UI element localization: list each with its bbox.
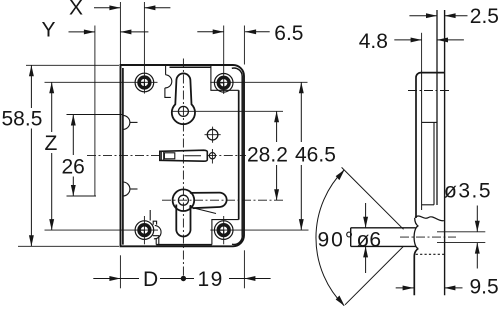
- dimension 46.5 line: [300, 82, 302, 230]
- case right edge: [238, 90, 240, 219]
- screw boss top-right outer: [214, 74, 233, 93]
- dimension 6.5 line: [197, 31, 269, 33]
- ø3.5 hole line top: [437, 231, 485, 233]
- pin cylinder: [351, 228, 416, 247]
- screw boss top-left tick: [141, 83, 145, 87]
- svg-text:ø3.5: ø3.5: [444, 179, 492, 202]
- svg-text:26: 26: [62, 156, 85, 179]
- svg-text:Z: Z: [45, 132, 58, 155]
- bolt inner dash: [184, 155, 201, 157]
- lever stem: [176, 205, 190, 237]
- dimension ø3.5 arrows: [476, 206, 478, 269]
- dimension Y line: [69, 31, 149, 33]
- dimension 2.5 line: [409, 15, 467, 17]
- extension line 4.8 front: [421, 33, 423, 70]
- extension line D left: [119, 255, 121, 288]
- hole circle lower: [209, 153, 215, 159]
- arrow arc top: [336, 170, 345, 181]
- arrow 2.5 left: [426, 13, 437, 18]
- side view slot bottom line: [422, 204, 434, 206]
- cover cutout top-left step: [165, 66, 167, 75]
- screw boss top-right ring: [218, 77, 229, 88]
- dimension 4.8 line: [394, 39, 464, 41]
- extension line 19 right: [243, 250, 245, 288]
- crosshair boss BR vertical: [223, 216, 225, 244]
- arrow Z bottom: [49, 219, 54, 230]
- extension line plate right top: [243, 26, 245, 65]
- side view plate back line: [444, 10, 446, 295]
- bolt outline: [160, 150, 208, 161]
- lever diagonal cutout edge: [189, 207, 216, 214]
- svg-text:4.8: 4.8: [359, 30, 388, 53]
- arrow arc bottom: [336, 296, 345, 307]
- side view plate front line: [436, 10, 438, 205]
- plate inner lip right: [232, 68, 242, 244]
- node dot center: [181, 276, 186, 281]
- svg-text:ø6: ø6: [357, 229, 382, 252]
- lever arm: [190, 193, 227, 209]
- hole circle upper: [207, 129, 218, 140]
- extension line 46.5 top: [210, 81, 307, 83]
- arrow 28.2 top: [274, 111, 279, 122]
- angle 90 radius line lower: [345, 246, 404, 304]
- side view boss front line: [414, 248, 418, 295]
- cover notch bottom-right: [212, 220, 239, 245]
- arrow 4.8 left: [411, 37, 422, 42]
- svg-text:9.5: 9.5: [470, 275, 499, 298]
- svg-text:D: D: [143, 268, 158, 291]
- angle 90 radius line upper: [342, 167, 404, 229]
- extension line 26 top: [67, 114, 123, 116]
- horizontal centerline: [87, 155, 246, 157]
- svg-text:Y: Y: [42, 19, 56, 42]
- extension line 26 bottom: [67, 195, 97, 197]
- screw boss bottom-left ring: [139, 225, 150, 236]
- pin collar neck: [415, 218, 419, 226]
- side view case outline: [416, 73, 445, 218]
- arrow 28.2 bottom: [274, 189, 279, 200]
- svg-text:28.2: 28.2: [247, 144, 288, 167]
- vertical centerline: [182, 59, 184, 279]
- arrow 2.5 right: [445, 13, 456, 18]
- side view upper centerline: [408, 90, 452, 92]
- dimension 28.2 line: [276, 111, 278, 200]
- arrow Z top: [49, 82, 54, 93]
- svg-text:46.5: 46.5: [295, 144, 336, 167]
- extension line X left / plate left top: [119, 2, 121, 65]
- arrow 46.5 bottom: [299, 219, 304, 230]
- pin collar: [414, 226, 418, 248]
- ø3.5 hole line bottom: [437, 242, 485, 244]
- extension line boss TR center: [223, 26, 225, 95]
- side view slot right line: [433, 122, 435, 204]
- arrow ø3.5 top: [475, 221, 480, 232]
- arrow 4.8 right: [437, 37, 448, 42]
- screw boss top-right tick: [220, 83, 224, 87]
- extension line boss TL center: [143, 2, 145, 94]
- arrow 9.5 left: [403, 285, 414, 290]
- left tab lower chord: [130, 188, 138, 190]
- screw boss bottom-right outer: [214, 221, 233, 240]
- angle 90 arc: [316, 170, 344, 306]
- bolt inner box: [164, 153, 174, 159]
- case top edge: [170, 66, 211, 68]
- svg-text:90°: 90°: [318, 229, 356, 252]
- dimension 9.5 line: [396, 287, 463, 289]
- svg-text:19: 19: [198, 268, 224, 291]
- lobe ear top-left boss: [165, 75, 172, 88]
- dimension X line: [94, 7, 170, 9]
- screw boss bottom-left tick: [141, 230, 145, 234]
- arrow 26 bottom: [71, 185, 76, 196]
- dimension 58.5 line: [30, 65, 32, 246]
- arrow 46.5 top: [299, 82, 304, 93]
- extension line Y left bolt tip: [94, 26, 96, 197]
- arrow 6.5 right: [245, 29, 256, 34]
- bolt head band: [161, 151, 163, 160]
- arrow 58.5 top: [29, 65, 34, 76]
- screw boss bottom-right tick: [220, 230, 224, 234]
- left tab lower: [123, 182, 130, 196]
- left tab upper: [123, 115, 130, 129]
- screw boss bottom-right ring: [218, 225, 229, 236]
- svg-text:6.5: 6.5: [274, 22, 303, 45]
- pin hidden dotted line: [416, 253, 444, 255]
- cover step bottom-left: [153, 236, 159, 245]
- screw boss bottom-left outer: [135, 221, 154, 240]
- arrow 19 right: [244, 276, 255, 281]
- hole circle lower crosshair: [211, 149, 213, 164]
- ear lobe stem bottom-left: [155, 238, 157, 245]
- pin centerline: [400, 236, 456, 238]
- side view slot top line: [422, 121, 437, 123]
- ear lobe bottom-left boss: [154, 225, 161, 238]
- dimension D 19 line: [93, 278, 270, 280]
- arrow ø6 top: [363, 217, 368, 228]
- case left edge: [122, 68, 124, 245]
- arrow 6.5 left: [213, 29, 224, 34]
- arrow 58.5 bottom: [29, 235, 34, 246]
- left tab upper chord: [130, 121, 138, 123]
- dimension ø6 arrows: [365, 203, 367, 273]
- side view cover face line: [421, 70, 423, 210]
- keyhole outline: [172, 73, 195, 124]
- side view break wavy line: [415, 216, 444, 221]
- extension line plate top left: [26, 64, 119, 66]
- extension line plate bottom left: [18, 245, 119, 247]
- arrow Y right: [120, 29, 131, 34]
- extension line screw top left: [45, 81, 158, 83]
- lever centerline extension 28.2 bottom: [162, 199, 283, 201]
- arrow X left: [109, 5, 120, 10]
- extension line screw bottom left: [45, 229, 159, 231]
- dimension Z line: [51, 82, 53, 230]
- lever hub inner: [178, 195, 188, 205]
- arrow 26 top: [71, 115, 76, 126]
- svg-text:2.5: 2.5: [470, 5, 499, 28]
- cover notch top-right: [211, 66, 239, 90]
- arrow 9.5 right: [444, 285, 455, 290]
- plate outline front view: [121, 65, 245, 246]
- spring wire line: [149, 210, 151, 221]
- keyhole crosshair: [172, 110, 283, 112]
- arrow ø3.5 bottom: [475, 243, 480, 254]
- arrow ø6 bottom: [363, 246, 368, 257]
- lever hub outer: [173, 189, 195, 211]
- crosshair boss BL vertical: [143, 216, 145, 244]
- keyhole inner circle: [178, 106, 188, 116]
- arrow X right: [144, 5, 155, 10]
- screw boss top-left outer: [135, 73, 154, 92]
- ear tab bottom-left boss: [153, 221, 156, 225]
- arrow D left: [109, 276, 120, 281]
- arrow Y left: [84, 29, 95, 34]
- screw boss top-left ring: [139, 77, 150, 88]
- svg-text:X: X: [69, 0, 83, 20]
- extension line 46.5 bottom: [210, 229, 308, 231]
- svg-text:58.5: 58.5: [2, 108, 43, 131]
- dimension 26 line: [72, 115, 74, 197]
- case bottom edge: [156, 244, 212, 246]
- hole circle upper crosshair: [205, 127, 221, 143]
- cover edge below top-left lobe: [165, 88, 171, 98]
